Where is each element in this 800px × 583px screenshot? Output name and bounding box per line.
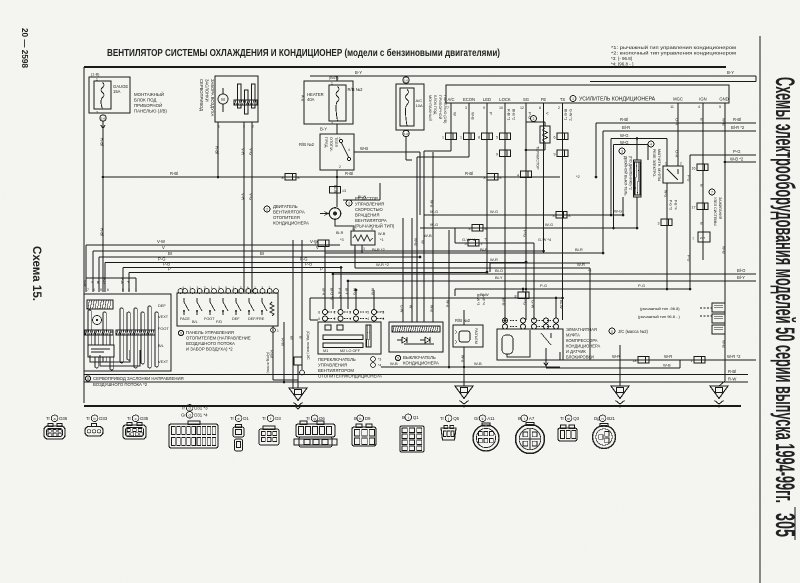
connector under motor <box>318 240 329 247</box>
wire B-Y second segment <box>590 81 756 83</box>
svg-text:W-B: W-B <box>430 305 434 313</box>
svg-text:W-B: W-B <box>414 238 419 246</box>
svg-text:W-G: W-G <box>430 222 438 227</box>
svg-text:*3: (- 96.8): *3: (- 96.8) <box>611 56 633 61</box>
svg-text:3: 3 <box>128 288 130 292</box>
svg-text:J/C (масса №2): J/C (масса №2) <box>618 329 649 334</box>
svg-text:5: 5 <box>719 105 721 109</box>
svg-text:W-B: W-B <box>360 146 368 151</box>
svg-text:M2 LO OFF: M2 LO OFF <box>340 349 361 353</box>
svg-text:VEXT: VEXT <box>158 359 169 364</box>
left frame wire <box>83 67 85 403</box>
panel ПАНЕЛЬ УПРАВЛЕНИЯ ОТОПИТЕЛЕМ box <box>177 293 278 326</box>
svg-text:1: 1 <box>442 136 444 140</box>
svg-text:b: b <box>94 417 96 421</box>
svg-text:V-W: V-W <box>83 280 87 287</box>
svg-text:1: 1 <box>233 286 235 290</box>
svg-text:1: 1 <box>211 286 213 290</box>
svg-text:Схемы электрооборудования моде: Схемы электрооборудования моделей 50 сер… <box>770 77 800 503</box>
svg-text:2: 2 <box>331 122 333 126</box>
wire Bl-R*2 from resistor to bus <box>362 252 603 254</box>
resistor R1 box <box>351 231 375 245</box>
svg-text:ПАНЕЛЬЮ (J/B): ПАНЕЛЬЮ (J/B) <box>134 109 167 114</box>
svg-text:6: 6 <box>247 286 249 290</box>
svg-text:c: c <box>135 417 137 421</box>
svg-text:M: M <box>221 97 225 102</box>
svg-text:Q3: Q3 <box>573 416 579 421</box>
wire P-G mid bus <box>455 288 690 290</box>
svg-text:ТЕРМИСТОР: ТЕРМИСТОР <box>536 146 540 170</box>
svg-text:(рычажный тип -96.8): (рычажный тип -96.8) <box>640 306 680 311</box>
svg-text:V-W: V-W <box>310 239 318 244</box>
connector D36 body <box>44 426 65 439</box>
svg-text:Tr: Tr <box>46 416 51 421</box>
label СЕРВОПРИВОД ЗАСЛОНКИ НАПРАВЛЕНИЯ ВОЗДУШНОГО ПОТОКА <box>85 376 90 381</box>
svg-text:5: 5 <box>122 288 124 292</box>
wire R-Bl long bottom bus <box>84 374 748 376</box>
svg-text:2: 2 <box>334 311 336 315</box>
svg-text:TS: TS <box>560 97 566 102</box>
svg-text:R-Bl: R-Bl <box>170 171 178 176</box>
connector A11 body <box>473 425 499 451</box>
wire P bus <box>129 272 487 274</box>
svg-text:Z47: Z47 <box>700 236 706 240</box>
svg-text:R-Bl: R-Bl <box>345 171 353 176</box>
svg-text:R-Bl: R-Bl <box>100 228 105 236</box>
svg-text:V-R: V-R <box>241 193 246 200</box>
wire R-Bl panel to ground <box>272 326 274 380</box>
svg-text:5: 5 <box>225 286 227 290</box>
svg-text:4: 4 <box>348 148 350 152</box>
svg-text:(Сред. вспом.) J/C: (Сред. вспом.) J/C <box>306 331 310 360</box>
wire Bl-W jog <box>343 199 380 201</box>
svg-text:B-Y: B-Y <box>727 70 734 75</box>
svg-text:W-B: W-B <box>378 232 386 236</box>
svg-text:V-W: V-W <box>157 239 165 244</box>
connector B21 body <box>593 426 616 449</box>
svg-text:W-B: W-B <box>722 118 727 126</box>
svg-text:Bl-B *1: Bl-B *1 <box>564 109 568 120</box>
svg-text:3: 3 <box>218 286 220 290</box>
wire P from LED pin <box>486 103 488 272</box>
svg-text:Bl: Bl <box>290 336 295 340</box>
svg-text:8: 8 <box>318 311 320 315</box>
svg-text:G-W *2: G-W *2 <box>569 109 573 121</box>
svg-text:МОНТАЖНЫЙ: МОНТАЖНЫЙ <box>428 95 432 121</box>
svg-text:FOOT: FOOT <box>158 326 169 331</box>
svg-text:ДВОЙНОЙ ВЫКЛ-ТЕЛЬ: ДВОЙНОЙ ВЫКЛ-ТЕЛЬ <box>624 156 628 196</box>
ground G4 <box>710 386 728 399</box>
svg-text:G-W: G-W <box>400 305 404 313</box>
panel internal resistor <box>270 302 274 316</box>
svg-text:Gr: Gr <box>474 416 479 421</box>
svg-text:Bl-W: Bl-W <box>480 292 489 297</box>
svg-text:W-R: W-R <box>490 257 498 262</box>
svg-text:P-B *4: P-B *4 <box>338 288 342 298</box>
svg-text:9: 9 <box>483 106 485 110</box>
svg-text:БЛОК ПОД: БЛОК ПОД <box>433 95 437 115</box>
svg-text:V: V <box>545 112 550 115</box>
svg-text:Bl-O: Bl-O <box>495 268 503 273</box>
svg-text:3: 3 <box>240 286 242 290</box>
svg-text:2: 2 <box>266 208 268 212</box>
svg-text:ОТОПИ-: ОТОПИ- <box>329 137 333 153</box>
svg-text:j: j <box>447 417 449 421</box>
connector 6-1 above clutch <box>518 292 529 299</box>
svg-text:D31 *4: D31 *4 <box>194 413 208 418</box>
title rule <box>84 66 726 68</box>
svg-text:h: h <box>359 417 361 421</box>
svg-text:B: B <box>518 416 521 421</box>
svg-text:3: 3 <box>658 222 660 226</box>
connector D3 body <box>259 429 279 445</box>
wire W-B from ECON pin <box>468 103 470 157</box>
wire W-B drop to switch <box>373 290 375 309</box>
svg-text:V: V <box>316 245 319 250</box>
svg-text:3: 3 <box>621 150 623 154</box>
svg-text:MGC: MGC <box>673 97 683 102</box>
svg-text:8: 8 <box>282 176 284 180</box>
svg-text:D3: D3 <box>275 416 281 421</box>
connector second row <box>500 150 511 157</box>
svg-text:D36: D36 <box>59 416 68 421</box>
svg-text:5: 5 <box>100 288 102 292</box>
svg-text:V-R: V-R <box>241 148 246 155</box>
svg-text:ВЫКЛЮЧАТЕЛЬ: ВЫКЛЮЧАТЕЛЬ <box>403 355 436 360</box>
svg-text:FOOT: FOOT <box>204 317 215 321</box>
wires into AC switch <box>402 218 404 322</box>
svg-text:P-B: P-B <box>305 262 312 267</box>
svg-text:W-B: W-B <box>424 233 432 238</box>
svg-text:1-6: 1-6 <box>101 117 105 121</box>
svg-text:4: 4 <box>698 105 700 109</box>
switch ДВОЙНОЙ ВЫКЛЮЧАТЕЛЬ ПО ДАВЛЕНИЮ S1 <box>619 148 625 154</box>
svg-text:3: 3 <box>349 311 351 315</box>
wire W-G relay to bus <box>666 139 668 167</box>
svg-text:IGN: IGN <box>699 97 706 102</box>
svg-text:5: 5 <box>367 311 369 315</box>
svg-text:СЕРВОПРИВОД ЗАСЛОНКИ НАПРАВЛЕН: СЕРВОПРИВОД ЗАСЛОНКИ НАПРАВЛЕНИЯ <box>93 376 184 381</box>
svg-text:6: 6 <box>318 317 320 321</box>
svg-text:G-W: G-W <box>531 300 536 308</box>
svg-text:9: 9 <box>554 153 556 157</box>
svg-text:*4: *4 <box>381 317 384 321</box>
servo motor block M1 <box>215 76 258 122</box>
wire W-G drop to switch <box>355 290 357 309</box>
svg-text:LED: LED <box>483 97 491 102</box>
svg-text:1: 1 <box>254 286 256 290</box>
svg-text:3: 3 <box>261 286 263 290</box>
ground G3 <box>619 352 621 386</box>
svg-text:P: P <box>320 267 323 272</box>
connector row under amplifier pins <box>446 133 457 140</box>
svg-text:R-Bl: R-Bl <box>620 117 628 122</box>
label ВЫКЛЮЧАТЕЛЬ КОНДИЦИОНЕРА <box>395 355 400 360</box>
svg-text:e: e <box>238 417 240 421</box>
svg-text:i: i <box>408 416 409 420</box>
svg-text:*4: *4 <box>378 364 381 368</box>
svg-text:A11: A11 <box>487 416 495 421</box>
svg-text:W-G: W-G <box>490 209 498 214</box>
connector D33 body <box>85 427 103 437</box>
svg-text:B-Y: B-Y <box>355 70 362 75</box>
svg-text:W-G: W-G <box>664 190 668 198</box>
svg-text:GND: GND <box>719 97 728 102</box>
svg-text:2: 2 <box>269 286 271 290</box>
svg-text:1: 1 <box>189 286 191 290</box>
svg-text:7: 7 <box>447 106 449 110</box>
svg-text:4: 4 <box>650 143 652 147</box>
svg-text:9: 9 <box>180 332 182 336</box>
svg-text:ПРИБОРНОЙ: ПРИБОРНОЙ <box>134 103 162 108</box>
svg-text:Bl-Y: Bl-Y <box>737 275 745 280</box>
svg-text:18: 18 <box>633 359 637 363</box>
svg-text:B: B <box>700 184 705 187</box>
svg-text:W-R *2: W-R *2 <box>727 354 741 359</box>
svg-text:D35: D35 <box>140 416 149 421</box>
svg-text:3: 3 <box>348 202 350 206</box>
svg-text:m: m <box>567 417 570 421</box>
wire W-B bottom right <box>546 367 680 369</box>
svg-text:(рычажный тип 96.8 - ): (рычажный тип 96.8 - ) <box>638 314 681 319</box>
svg-text:КОНДИЦИОНЕРА: КОНДИЦИОНЕРА <box>273 221 309 226</box>
svg-text:1: 1 <box>135 288 137 292</box>
svg-text:ВОЗДУШНОГО ПОТОКА: ВОЗДУШНОГО ПОТОКА <box>186 341 235 346</box>
svg-text:1: 1 <box>349 317 351 321</box>
separator rule above connectors <box>84 405 741 407</box>
svg-text:*1: рычажный тип управления ко: *1: рычажный тип управления кондиционеро… <box>611 44 736 51</box>
svg-text:*3: *3 <box>340 238 344 242</box>
svg-text:1: 1 <box>331 82 333 86</box>
svg-text:DEF/FRE: DEF/FRE <box>248 317 265 321</box>
svg-text:ВЕНТИЛЯТОРА: ВЕНТИЛЯТОРА <box>355 218 387 223</box>
connector D35 body <box>123 425 146 439</box>
servo slider bars <box>88 310 91 355</box>
svg-text:УПРАВЛЕНИЯ: УПРАВЛЕНИЯ <box>355 202 384 207</box>
wire V from FE pin <box>543 103 545 251</box>
connector on R-Bl bus <box>285 174 296 181</box>
svg-text:ПРИБОРНОЙ: ПРИБОРНОЙ <box>438 95 442 120</box>
wire stub to ground G3 <box>619 345 621 352</box>
svg-text:d: d <box>189 406 191 410</box>
svg-text:W-G: W-G <box>614 209 622 214</box>
connector on motor wire <box>330 187 341 194</box>
svg-text:W-R: W-R <box>664 354 672 359</box>
ground G2 <box>455 386 473 399</box>
wire R-Bl main horizontal bus <box>103 176 560 178</box>
svg-text:A/C: A/C <box>448 97 455 102</box>
switch ВЫКЛЮЧАТЕЛЬ КОНДИЦИОНЕРА box <box>389 322 443 352</box>
svg-text:40A: 40A <box>307 97 315 102</box>
svg-text:ОТОПИТЕЛЯ: ОТОПИТЕЛЯ <box>273 215 300 220</box>
svg-text:W-B: W-B <box>390 361 398 366</box>
wire P-G right stub <box>690 154 756 156</box>
svg-text:F/D: F/D <box>216 320 222 324</box>
svg-text:1: 1 <box>460 136 462 140</box>
svg-text:R-W: R-W <box>728 377 736 382</box>
svg-text:W: W <box>453 112 458 116</box>
connector D6 body <box>296 424 335 437</box>
svg-text:Tr: Tr <box>560 416 565 421</box>
svg-text:РЕЛЕ ЭЛЕКТРО-: РЕЛЕ ЭЛЕКТРО- <box>652 149 656 178</box>
wire W-B from relay to right <box>354 151 420 153</box>
svg-text:Tr: Tr <box>127 416 132 421</box>
svg-text:*2: *2 <box>588 269 591 273</box>
svg-text:2: 2 <box>334 317 336 321</box>
svg-text:W-G: W-G <box>620 140 629 145</box>
svg-text:(ПО ДАВЛЕНИЮ) *2: (ПО ДАВЛЕНИЮ) *2 <box>629 156 633 190</box>
svg-text:ПЕРЕКЛЮЧАТЕЛЬ: ПЕРЕКЛЮЧАТЕЛЬ <box>318 357 356 362</box>
wire R-Bl right bus <box>596 122 756 124</box>
wire V-R from servo <box>243 122 245 292</box>
wire relay bottom to P-G <box>666 183 668 289</box>
svg-text:W-R: W-R <box>612 354 620 359</box>
arrow from label to motor <box>320 212 328 216</box>
connector on ground wire <box>294 357 302 365</box>
svg-text:СЕРВОПРИВОД: СЕРВОПРИВОД <box>199 79 204 111</box>
label УЗЕЛ СИСТЕМЫ ЗАЖИГАНИЯ <box>709 189 715 195</box>
svg-text:2: 2 <box>339 165 341 169</box>
wire W-B razem down to ground <box>463 347 465 386</box>
svg-text:Bl-B: Bl-B <box>502 298 507 306</box>
connector D9 body <box>352 427 376 446</box>
wire O-R from MGC pin <box>677 103 679 166</box>
svg-text:ЗАЖИГАНИЯ: ЗАЖИГАНИЯ <box>718 197 722 220</box>
svg-text:УЗЕЛ СИСТЕМЫ: УЗЕЛ СИСТЕМЫ <box>713 197 717 226</box>
connector D31 body <box>169 424 218 448</box>
svg-text:P-B *4: P-B *4 <box>674 200 678 210</box>
svg-text:W-G: W-G <box>353 288 357 296</box>
svg-text:МАГНИТН. МУФТЫ: МАГНИТН. МУФТЫ <box>657 149 661 181</box>
svg-text:12: 12 <box>520 106 524 110</box>
connector on SG wire <box>521 171 532 178</box>
relay РЕЛЕ ЭЛЕКТРОМАГНИТНОЙ МУФТЫ K1 <box>648 141 654 147</box>
svg-text:КОНДИЦИОНЕРА: КОНДИЦИОНЕРА <box>566 344 600 349</box>
svg-text:W-B *2: W-B *2 <box>730 157 744 162</box>
wire Bl-W bus <box>310 297 563 299</box>
svg-text:l: l <box>524 417 525 421</box>
svg-text:7: 7 <box>87 288 89 292</box>
svg-text:Схема 15.: Схема 15. <box>30 246 42 301</box>
svg-text:k: k <box>482 417 484 421</box>
svg-text:11: 11 <box>611 330 614 334</box>
svg-text:B21: B21 <box>607 416 615 421</box>
op-box U1 УСИЛИТЕЛЬ КОНДИЦИОНЕРА <box>446 85 729 103</box>
svg-text:15A: 15A <box>113 89 121 94</box>
svg-text:W-G: W-G <box>545 222 553 227</box>
wire Br bus <box>99 256 420 258</box>
svg-text:8: 8 <box>539 106 541 110</box>
svg-text:W-B: W-B <box>446 300 450 308</box>
wire W-G bus mid a <box>424 214 623 216</box>
label ПАНЕЛЬ УПРАВЛЕНИЯ ОТОПИТЕЛЕМ <box>178 330 183 335</box>
svg-text:3: 3 <box>363 247 365 251</box>
svg-text:1: 1 <box>352 227 354 231</box>
svg-text:D1: D1 <box>243 416 249 421</box>
svg-text:O-R: O-R <box>675 150 680 157</box>
svg-text:Bl-R: Bl-R <box>575 247 583 252</box>
svg-text:4: 4 <box>371 227 373 231</box>
svg-text:Bl-R: Bl-R <box>336 231 344 235</box>
svg-text:Bl-Y: Bl-Y <box>495 275 503 280</box>
svg-text:УПРАВЛЕНИЯ: УПРАВЛЕНИЯ <box>318 363 347 368</box>
panel pin circles <box>178 289 183 294</box>
wire W-G bus mid b <box>420 227 637 229</box>
svg-text:(Сред. вспом.): (Сред. вспом.) <box>266 352 270 373</box>
servo inner lower box <box>88 345 114 357</box>
svg-text:Tr: Tr <box>230 416 235 421</box>
wire B from IGN pin <box>702 103 704 260</box>
svg-text:P: P <box>489 112 494 115</box>
svg-text:10A: 10A <box>416 103 423 108</box>
svg-text:LOCK: LOCK <box>499 97 511 102</box>
svg-text:D6: D6 <box>319 416 325 421</box>
wire W-B*2 right stub <box>725 161 756 163</box>
svg-text:P-G: P-G <box>638 283 645 288</box>
svg-text:ВЕНТИЛЯТОР СИСТЕМЫ ОХЛАЖДЕНИЯ: ВЕНТИЛЯТОР СИСТЕМЫ ОХЛАЖДЕНИЯ И КОНДИЦИО… <box>107 48 500 59</box>
svg-text:3: 3 <box>553 214 555 218</box>
junction dots on buses <box>332 273 335 276</box>
svg-text:2: 2 <box>204 286 206 290</box>
svg-text:3: 3 <box>197 286 199 290</box>
svg-text:W-B: W-B <box>722 246 727 254</box>
connector Q1 body <box>400 426 424 452</box>
svg-text:ОТОПИТЕЛЕМ (НАПРАВЛЕНИЕ: ОТОПИТЕЛЕМ (НАПРАВЛЕНИЕ <box>186 336 251 341</box>
svg-text:2: 2 <box>558 106 560 110</box>
svg-text:P-G: P-G <box>687 255 691 262</box>
svg-text:ЗАСЛОНКИ: ЗАСЛОНКИ <box>205 79 210 102</box>
svg-text:P-G: P-G <box>102 278 106 284</box>
switch ПЕРЕКЛЮЧАТЕЛЬ ВЕНТИЛЯТОРОМ pin rows <box>323 310 328 315</box>
svg-text:W-G: W-G <box>620 133 629 138</box>
switch side pins <box>371 357 376 362</box>
svg-text:Br: Br <box>168 251 173 256</box>
svg-text:ДВИГАТЕЛЬ: ДВИГАТЕЛЬ <box>273 204 298 209</box>
sidebar page number underline <box>794 507 796 540</box>
clutch box <box>497 329 563 360</box>
svg-text:W: W <box>421 240 426 244</box>
svg-text:7: 7 <box>692 237 694 241</box>
wire Bl-B*1 G-W*2 from TS pin <box>562 103 564 320</box>
svg-text:Bl-W: Bl-W <box>358 195 367 199</box>
svg-text:W-B: W-B <box>430 200 434 208</box>
wire Bl drop <box>292 240 294 389</box>
wire Bl-R mid bus <box>325 252 380 254</box>
svg-text:3: 3 <box>465 106 467 110</box>
label РЕЗИСТОР УПРАВЛЕНИЯ СКОРОСТЬЮ <box>346 200 352 206</box>
svg-text:ВОЗДУШНОГО ПОТОКА *2: ВОЗДУШНОГО ПОТОКА *2 <box>93 382 148 387</box>
svg-text:2: 2 <box>533 117 535 121</box>
svg-text:РАЗЪЕМ: РАЗЪЕМ <box>474 328 478 344</box>
wire B-Y fuse to heater relay <box>336 124 338 134</box>
svg-text:R/B №2: R/B №2 <box>455 318 471 323</box>
svg-text:КОНДИЦИОНЕРА: КОНДИЦИОНЕРА <box>403 361 439 366</box>
svg-text:6: 6 <box>554 136 556 140</box>
svg-text:B: B <box>700 118 705 121</box>
svg-text:8: 8 <box>515 295 517 299</box>
wire motor to resistor <box>335 219 354 231</box>
svg-text:B/L: B/L <box>158 343 165 348</box>
svg-text:17: 17 <box>692 206 696 210</box>
svg-text:g: g <box>314 417 316 421</box>
wire B-W from AC fuse down <box>405 137 407 160</box>
svg-text:1-6: 1-6 <box>404 79 408 83</box>
wire W-R mid bus <box>490 262 590 264</box>
svg-text:2: 2 <box>680 162 682 166</box>
svg-text:d: d <box>189 413 191 417</box>
svg-text:1: 1 <box>691 359 693 363</box>
svg-text:P: P <box>484 238 489 241</box>
